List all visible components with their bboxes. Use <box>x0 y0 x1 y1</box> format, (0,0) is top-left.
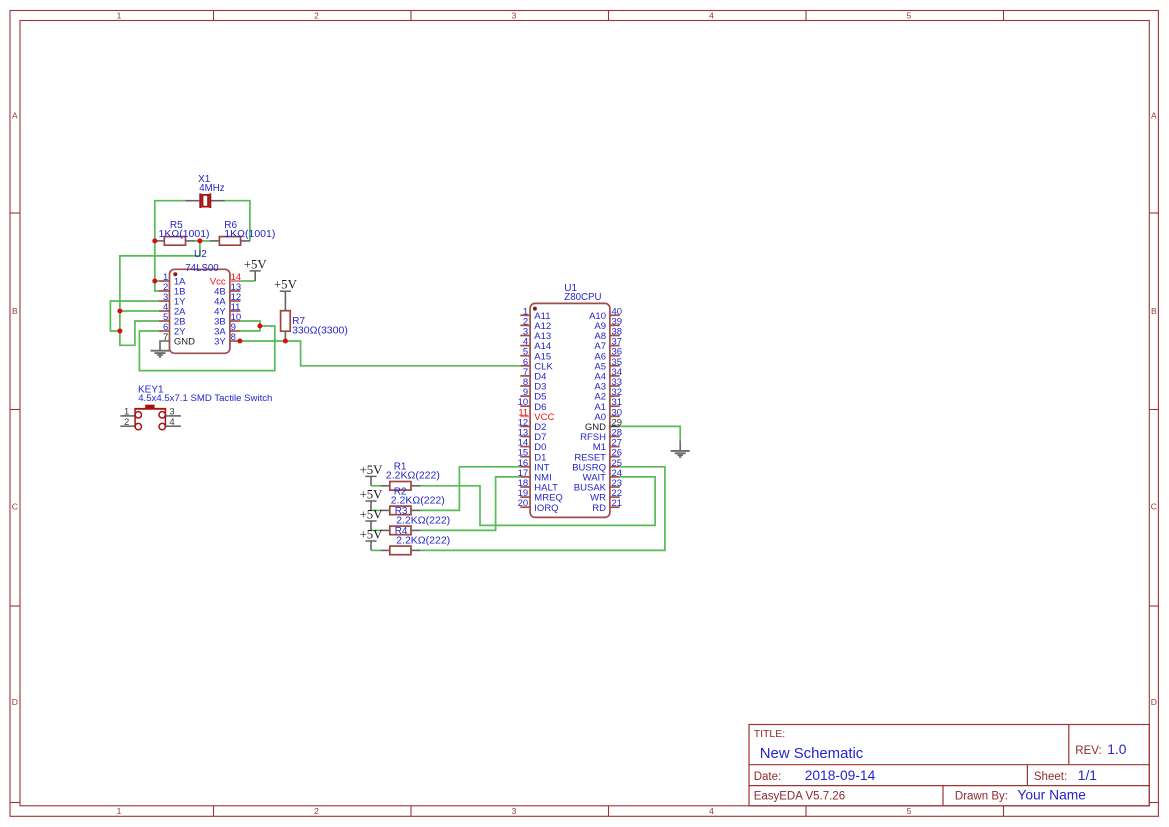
svg-text:EasyEDA V5.7.26: EasyEDA V5.7.26 <box>754 791 845 803</box>
power +5V (R2) <box>360 487 384 510</box>
svg-text:33: 33 <box>612 377 623 388</box>
svg-text:Z80CPU: Z80CPU <box>564 292 601 303</box>
svg-text:GND: GND <box>174 336 195 347</box>
svg-text:39: 39 <box>612 316 623 327</box>
wire +5V to R3 <box>371 529 380 531</box>
wire +5V to R1 <box>371 485 380 487</box>
svg-text:+5V: +5V <box>360 487 384 501</box>
wire net OSC: U2 2Y loop to 3A/3B <box>139 326 274 371</box>
power +5V (U2 Vcc) <box>244 257 268 281</box>
resistor R6 <box>210 220 275 245</box>
svg-text:31: 31 <box>612 397 623 408</box>
svg-text:26: 26 <box>612 448 623 459</box>
wire branch from pin 1Y <box>110 301 158 331</box>
svg-text:+5V: +5V <box>360 463 384 477</box>
svg-text:4.5x4.5x7.1 SMD Tactile Switch: 4.5x4.5x7.1 SMD Tactile Switch <box>138 393 272 404</box>
wire branch pin 3A <box>240 326 260 331</box>
resistor R2 <box>380 487 444 515</box>
svg-text:3: 3 <box>512 806 517 816</box>
svg-text:New Schematic: New Schematic <box>760 746 864 762</box>
power +5V (R1) <box>360 463 384 486</box>
svg-text:38: 38 <box>612 327 623 338</box>
svg-text:5: 5 <box>907 11 912 21</box>
svg-text:2018-09-14: 2018-09-14 <box>805 768 876 783</box>
svg-text:A: A <box>1151 111 1157 121</box>
power +5V (R4) <box>360 527 384 550</box>
svg-text:D: D <box>1151 697 1157 707</box>
U1 right pin stubs <box>610 506 620 508</box>
svg-text:2.2KΩ(222): 2.2KΩ(222) <box>391 495 445 507</box>
svg-text:1.0: 1.0 <box>1107 742 1127 757</box>
svg-text:34: 34 <box>612 367 623 378</box>
svg-text:Date:: Date: <box>754 771 782 783</box>
svg-text:3: 3 <box>512 11 517 21</box>
resistor R4 <box>380 526 450 555</box>
svg-text:20: 20 <box>518 498 529 509</box>
svg-text:1KΩ(1001): 1KΩ(1001) <box>159 228 210 240</box>
svg-text:8: 8 <box>231 332 236 343</box>
svg-text:35: 35 <box>612 357 623 368</box>
svg-text:22: 22 <box>612 488 623 499</box>
U2 left pin stubs <box>159 280 170 282</box>
svg-text:+5V: +5V <box>244 257 268 271</box>
svg-text:RD: RD <box>592 503 606 514</box>
U2 right pin stubs <box>230 290 241 292</box>
junction 1Y join <box>117 329 122 334</box>
wire +5V to R2 <box>371 509 380 511</box>
svg-text:4MHz: 4MHz <box>199 183 224 194</box>
svg-text:IORQ: IORQ <box>534 503 558 514</box>
svg-text:C: C <box>1151 502 1157 512</box>
junction R7 bottom <box>283 339 288 344</box>
svg-text:2.2KΩ(222): 2.2KΩ(222) <box>396 515 450 527</box>
ground (U1 pin 29) <box>671 440 690 457</box>
power +5V (R3) <box>360 507 384 530</box>
svg-text:2.2KΩ(222): 2.2KΩ(222) <box>386 470 440 482</box>
svg-text:74LS00: 74LS00 <box>185 263 219 274</box>
wire net CLK: U2 3Y to R7 bottom to U1 CLK <box>240 341 520 366</box>
svg-text:+5V: +5V <box>360 527 384 541</box>
junction U2 pin4 <box>117 309 122 314</box>
svg-text:U2: U2 <box>194 249 207 260</box>
pin1 indicator dot <box>533 307 537 311</box>
svg-text:2: 2 <box>124 417 129 428</box>
IC U1 Z80CPU <box>518 283 622 517</box>
wire net INT: R2 to U1 INT <box>420 467 520 511</box>
svg-text:1: 1 <box>117 806 122 816</box>
switch KEY1 tactile <box>120 385 272 430</box>
svg-text:27: 27 <box>612 438 623 449</box>
svg-text:330Ω(3300): 330Ω(3300) <box>292 324 348 336</box>
svg-text:3: 3 <box>169 407 174 418</box>
wire net BUSRQ: R4 to U1 BUSRQ <box>420 467 664 551</box>
U1 left pin stubs <box>520 314 530 316</box>
svg-text:D: D <box>12 697 18 707</box>
svg-text:2.2KΩ(222): 2.2KΩ(222) <box>396 535 450 547</box>
svg-text:A: A <box>12 111 18 121</box>
pin1 indicator dot <box>173 272 177 276</box>
svg-text:Drawn By:: Drawn By: <box>955 791 1008 803</box>
resistor R1 <box>380 462 440 491</box>
svg-text:Sheet:: Sheet: <box>1034 771 1067 783</box>
wire branch to pin 2A <box>120 310 159 312</box>
svg-text:32: 32 <box>612 387 623 398</box>
svg-text:1: 1 <box>117 11 122 21</box>
svg-text:2: 2 <box>314 11 319 21</box>
wire +5V to R4 <box>371 549 380 551</box>
wire between R5 and R6 <box>195 240 210 242</box>
junction 3Y output <box>237 339 242 344</box>
resistor R3 <box>380 506 450 535</box>
wire net XTAL-B: crystal right to R6 right <box>225 201 250 241</box>
resistor R5 <box>155 220 210 245</box>
wire net WAIT: R1 to U1 WAIT <box>420 477 655 526</box>
svg-text:1/1: 1/1 <box>1078 768 1097 783</box>
IC U2 74LS00 <box>159 249 241 353</box>
svg-text:4: 4 <box>169 417 174 428</box>
junction R5-R6 mid <box>197 238 202 243</box>
wire net XTAL-A: crystal left to R5 left and U2 1A/1B <box>155 201 185 291</box>
U2 pin 14 Vcc stub <box>230 280 241 282</box>
svg-text:5: 5 <box>907 806 912 816</box>
svg-text:21: 21 <box>612 498 623 509</box>
svg-text:4: 4 <box>709 11 714 21</box>
junction U2 pin1 <box>152 279 157 284</box>
wire net NMI: R3 to U1 NMI <box>420 477 520 531</box>
svg-text:28: 28 <box>612 428 623 439</box>
svg-text:30: 30 <box>612 407 623 418</box>
svg-text:4: 4 <box>709 806 714 816</box>
svg-text:TITLE:: TITLE: <box>754 728 786 740</box>
svg-text:C: C <box>12 502 18 512</box>
svg-text:+5V: +5V <box>360 507 384 521</box>
power +5V (R7) <box>274 278 298 311</box>
svg-text:1: 1 <box>124 407 129 418</box>
svg-text:23: 23 <box>612 478 623 489</box>
svg-text:B: B <box>1151 306 1157 316</box>
svg-text:37: 37 <box>612 337 623 348</box>
svg-text:B: B <box>12 306 18 316</box>
svg-text:Your Name: Your Name <box>1017 788 1086 803</box>
junction R5 left / crystal <box>152 238 157 243</box>
U2 pin 7 GND wire to ground <box>160 341 170 351</box>
wire net FB: R5-R6 mid down-left to U2 2A <box>120 241 200 345</box>
wire branch pin 3B <box>240 321 260 326</box>
wire stub to pin 1A <box>155 280 159 282</box>
wire Vcc pin14 to +5V <box>240 280 255 282</box>
svg-text:40: 40 <box>612 306 623 317</box>
wire net GND: U1 pin29 to ground <box>620 426 681 440</box>
junction 3A-3B join <box>257 324 262 329</box>
svg-text:REV:: REV: <box>1075 745 1101 757</box>
svg-text:7: 7 <box>163 332 168 343</box>
crystal X1 4MHz <box>185 174 225 208</box>
svg-text:1KΩ(1001): 1KΩ(1001) <box>224 228 275 240</box>
resistor R7 <box>281 311 348 341</box>
svg-text:2: 2 <box>314 806 319 816</box>
svg-text:36: 36 <box>612 347 623 358</box>
svg-text:3Y: 3Y <box>214 336 226 347</box>
svg-text:+5V: +5V <box>274 278 298 292</box>
ground (U2 pin 7) <box>151 351 170 357</box>
